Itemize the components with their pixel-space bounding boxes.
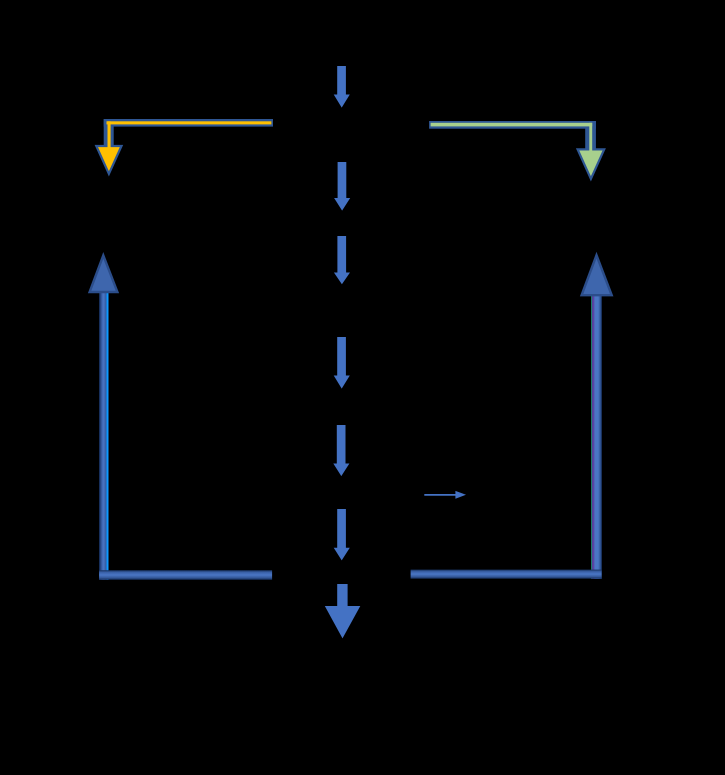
small right arrowhead bbox=[455, 491, 466, 499]
left big up arrow shaft bbox=[99, 291, 109, 580]
right big up arrowhead bbox=[582, 255, 612, 295]
left big up arrowhead bbox=[90, 255, 118, 292]
right big up arrow shaft bbox=[591, 294, 602, 579]
yellow elbow vertical band bbox=[104, 119, 114, 146]
green elbow vertical band bbox=[585, 121, 596, 149]
green arrowhead bbox=[578, 149, 605, 178]
center down arrow 3 bbox=[334, 236, 350, 284]
center down arrow 1 bbox=[334, 66, 350, 108]
yellow elbow horizontal band bbox=[104, 119, 273, 127]
yellow arrowhead bbox=[96, 146, 121, 174]
center down arrow 2 bbox=[334, 162, 350, 211]
center down arrow 4 bbox=[334, 337, 350, 389]
center down arrow 6 bbox=[334, 509, 350, 560]
green elbow horizontal band bbox=[429, 121, 596, 129]
yellow core vertical bbox=[108, 121, 111, 150]
right big up arrow bottom bar bbox=[411, 570, 602, 579]
green core vertical bbox=[589, 123, 592, 152]
green core horizontal bbox=[431, 123, 593, 127]
center down arrow 5 bbox=[333, 425, 349, 476]
center big down arrow 7 bbox=[325, 584, 361, 638]
left big up arrow bottom bar bbox=[99, 570, 272, 580]
small right arrow line bbox=[424, 494, 456, 496]
yellow core horizontal bbox=[107, 121, 272, 124]
